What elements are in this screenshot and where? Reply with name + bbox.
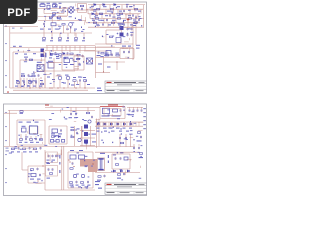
IC U4	[28, 126, 39, 134]
resistor R53	[109, 36, 112, 38]
wire	[4, 112, 17, 114]
wire	[10, 32, 92, 34]
wire	[135, 15, 137, 45]
transistor Q1	[58, 76, 62, 88]
resistor R4	[134, 8, 137, 10]
node	[103, 61, 118, 72]
capacitor C29	[137, 107, 139, 112]
wire	[90, 14, 138, 19]
resistor R45	[70, 168, 73, 170]
IC U10	[79, 155, 85, 159]
svg-text:PDF: PDF	[7, 7, 30, 19]
wire	[132, 25, 134, 60]
net label	[70, 150, 83, 151]
resistor R55	[116, 53, 120, 56]
net labels cluster	[28, 170, 45, 183]
capacitor C64	[67, 52, 69, 55]
net label	[40, 29, 77, 30]
wire	[82, 126, 91, 146]
wire	[86, 22, 140, 24]
net label	[42, 40, 85, 41]
wire	[95, 46, 97, 78]
net label	[70, 185, 91, 186]
node	[127, 18, 130, 21]
node	[86, 60, 93, 61]
wire	[84, 50, 108, 52]
node	[40, 77, 41, 78]
resistor R12	[133, 22, 136, 24]
filter box FB1	[46, 152, 58, 163]
diode D7	[97, 122, 99, 126]
net label	[71, 186, 89, 187]
wire	[95, 151, 140, 153]
resistor R46	[69, 182, 72, 184]
wire	[78, 4, 87, 13]
net label	[15, 53, 36, 54]
resistor R36	[39, 134, 42, 140]
net label	[71, 127, 80, 130]
capacitor C40	[40, 147, 42, 150]
wire	[95, 146, 135, 148]
wire	[127, 21, 129, 28]
resistor R14	[57, 16, 61, 19]
filter box FB2	[46, 166, 58, 177]
optocoupler U15	[41, 54, 45, 58]
net labels cluster	[98, 121, 143, 146]
capacitor C11	[67, 33, 69, 40]
wire	[95, 121, 143, 123]
wire	[96, 72, 111, 74]
wire	[100, 106, 125, 108]
capacitor C31	[119, 136, 121, 139]
net label	[97, 88, 102, 92]
net label	[122, 46, 131, 47]
net label	[102, 115, 121, 116]
resistor R22	[32, 73, 36, 76]
resistor R13	[49, 16, 53, 19]
net label	[118, 23, 124, 24]
resistor R9	[128, 18, 131, 20]
wire	[44, 52, 46, 88]
resistor R18	[74, 33, 77, 39]
capacitor C7	[102, 23, 104, 26]
capacitor C53	[104, 174, 106, 177]
net label	[49, 57, 81, 59]
resistor R32	[120, 142, 123, 144]
capacitor C6	[138, 19, 140, 22]
resistor R20	[24, 57, 33, 61]
capacitor C34	[25, 134, 27, 141]
node	[7, 91, 9, 94]
wire	[46, 45, 95, 47]
IC U3	[64, 57, 70, 63]
wire	[22, 152, 28, 170]
capacitor C32	[125, 136, 127, 139]
resistor R48	[115, 164, 118, 166]
wire	[13, 52, 45, 88]
capacitor C35	[35, 136, 37, 141]
capacitor C18	[35, 81, 37, 84]
optocoupler U12	[84, 132, 88, 136]
resistor R49	[139, 153, 142, 155]
net labels cluster	[111, 151, 142, 180]
node	[37, 165, 43, 181]
net label	[92, 20, 126, 21]
diode D17	[50, 53, 52, 55]
net labels cluster	[54, 129, 90, 149]
net label	[97, 180, 101, 181]
net label	[97, 131, 130, 132]
capacitor CX2	[59, 3, 62, 9]
capacitor C9	[43, 23, 45, 26]
wire	[97, 46, 116, 48]
wire	[17, 120, 45, 145]
wire	[75, 10, 88, 14]
title block	[105, 183, 147, 194]
capacitor C1	[126, 5, 128, 8]
wire	[80, 131, 95, 146]
wire	[28, 150, 45, 190]
net labels cluster	[107, 105, 134, 119]
diode D13	[58, 136, 60, 138]
resistor R54	[105, 53, 109, 56]
capacitor C44	[52, 154, 54, 157]
resistor R37	[51, 136, 54, 138]
net label	[11, 151, 38, 152]
resistor R59	[76, 58, 79, 60]
resistor R11	[111, 22, 114, 24]
capacitor C27	[129, 107, 131, 112]
net label	[47, 160, 56, 161]
capacitor C28	[133, 107, 135, 112]
diode D8	[104, 122, 106, 126]
wire	[8, 109, 95, 111]
net labels cluster	[51, 4, 80, 14]
capacitor C55	[81, 8, 83, 11]
wire	[75, 126, 82, 146]
net labels cluster	[46, 73, 87, 85]
capacitor C46	[72, 162, 74, 165]
IC U6	[52, 129, 58, 133]
capacitor C19	[73, 58, 75, 61]
wire	[127, 106, 143, 108]
net label	[136, 45, 140, 49]
wire	[95, 171, 140, 173]
capacitor C16	[38, 74, 40, 77]
inductor L1	[53, 3, 58, 7]
transformer T4	[120, 26, 124, 37]
PDF badge	[0, 0, 38, 24]
capacitor C10	[51, 33, 53, 40]
transistor Q5	[73, 174, 76, 177]
net labels cluster	[44, 15, 84, 30]
resistor R47	[80, 182, 83, 184]
transistor Q6	[81, 174, 84, 177]
capacitor C36	[60, 129, 62, 132]
optocoupler U2	[48, 61, 54, 68]
resistor R19	[134, 22, 137, 24]
wire	[21, 78, 45, 88]
transistor Q2	[66, 76, 70, 88]
sheet zone marks	[5, 112, 7, 183]
node	[29, 87, 52, 88]
capacitor C63	[55, 52, 57, 55]
resistor R10	[93, 22, 96, 24]
diode D2	[103, 4, 105, 6]
resistor R29	[20, 111, 24, 114]
diode D4	[92, 13, 94, 15]
capacitor C13	[135, 16, 137, 19]
resistor R51	[117, 174, 120, 176]
wire	[100, 107, 125, 119]
resistor R44	[49, 173, 52, 175]
inductor L4	[56, 140, 59, 143]
transformer T3	[98, 158, 105, 171]
resistor R56	[58, 54, 61, 56]
wire	[100, 26, 135, 28]
capacitor C57	[131, 27, 133, 30]
capacitor C17	[23, 81, 25, 84]
capacitor C22	[123, 50, 125, 53]
net label	[133, 20, 136, 27]
net label	[117, 178, 121, 179]
diode D12	[130, 122, 132, 126]
resistor R33	[137, 132, 140, 134]
net labels cluster	[92, 6, 135, 26]
net label	[19, 142, 39, 143]
net labels cluster	[88, 4, 142, 28]
capacitor C52	[138, 144, 140, 150]
wire	[120, 134, 131, 147]
resistor R38	[71, 129, 74, 131]
diode D3	[114, 4, 116, 6]
wire	[97, 119, 100, 149]
net label	[95, 181, 102, 189]
wire	[9, 27, 11, 88]
resistor R23	[16, 82, 19, 84]
capacitor C26	[120, 109, 122, 112]
resistor R30	[86, 107, 89, 113]
wire	[88, 13, 140, 15]
net labels cluster	[21, 59, 46, 87]
resistor R40	[11, 148, 14, 150]
optocoupler U13	[84, 140, 88, 144]
capacitor C67	[52, 168, 54, 171]
wire	[44, 25, 71, 33]
resistor R41	[22, 148, 25, 150]
diode D11	[123, 122, 125, 126]
diode D15	[120, 170, 122, 172]
rectifier module D5	[106, 51, 111, 56]
bridge rectifier BD2	[87, 58, 93, 64]
wire	[88, 4, 145, 6]
capacitor C30	[141, 107, 143, 112]
net label	[6, 148, 10, 152]
net label	[30, 179, 41, 180]
resistor R31	[113, 109, 118, 112]
capacitor C5	[106, 19, 108, 22]
capacitor C45	[48, 168, 50, 171]
net label	[93, 11, 141, 12]
wire	[10, 87, 95, 89]
capacitor C4	[132, 14, 134, 17]
resistor R1	[52, 13, 56, 16]
wire	[45, 49, 95, 51]
capacitor C23	[70, 107, 72, 115]
wire	[38, 20, 86, 22]
node	[49, 87, 85, 88]
diode D18	[63, 53, 65, 55]
wire	[95, 125, 143, 127]
node	[68, 159, 93, 167]
net label	[95, 15, 131, 16]
net label	[15, 86, 42, 87]
polarity mark	[117, 33, 129, 35]
net labels cluster	[44, 5, 67, 12]
transistor Q4	[78, 138, 81, 141]
resistor R34	[19, 134, 22, 140]
resistor R52	[80, 5, 83, 7]
wire	[74, 56, 84, 70]
capacitor C58	[127, 33, 129, 36]
capacitor C59	[131, 33, 133, 36]
capacitor C48	[87, 180, 89, 183]
net label	[56, 54, 60, 58]
resistor R43	[30, 169, 33, 171]
net label	[12, 28, 23, 29]
connector J1	[143, 108, 146, 129]
wire	[45, 189, 95, 191]
capacitor C65	[82, 54, 84, 57]
wire	[13, 89, 88, 91]
resistor R27	[83, 80, 86, 88]
resistor R7	[95, 18, 98, 20]
wire	[62, 55, 78, 70]
wire	[68, 152, 93, 188]
capacitor C33	[140, 135, 142, 138]
wire	[98, 23, 132, 27]
resistor R42	[33, 148, 36, 150]
wire	[92, 5, 134, 10]
net label	[57, 75, 86, 78]
wire	[90, 17, 144, 19]
net labels cluster	[98, 122, 143, 140]
wire	[112, 154, 130, 169]
wire	[94, 18, 128, 22]
capacitor C49	[115, 157, 117, 160]
diode D16	[127, 170, 129, 172]
capacitor C42	[39, 173, 41, 176]
capacitor C2	[123, 9, 125, 12]
capacitor C66	[55, 154, 57, 157]
voltage regulator U5	[22, 128, 27, 132]
capacitor C37	[76, 131, 78, 134]
capacitor C47	[76, 180, 78, 183]
wire	[4, 26, 38, 28]
net labels cluster	[49, 106, 97, 123]
net label	[64, 64, 75, 65]
net label	[16, 80, 43, 81]
wire	[10, 46, 133, 48]
diode D1	[94, 4, 96, 6]
net label	[19, 122, 39, 123]
net label	[100, 153, 109, 163]
inductor L3	[51, 140, 54, 143]
relay K1	[103, 108, 110, 114]
net label	[137, 140, 142, 141]
capacitor C14	[25, 58, 27, 61]
resistor R58	[77, 54, 80, 56]
capacitor C68	[79, 62, 81, 65]
wire	[62, 146, 64, 190]
transistor Q3	[88, 120, 91, 123]
capacitor C51	[133, 144, 135, 150]
diode D10	[117, 122, 119, 126]
relay box	[104, 109, 121, 116]
net labels cluster	[9, 146, 37, 153]
component box	[116, 38, 121, 43]
optocoupler U14	[41, 49, 45, 53]
net labels cluster	[44, 25, 83, 36]
net label	[45, 53, 46, 58]
inductor L6	[124, 157, 128, 160]
wire	[9, 110, 11, 146]
net label	[13, 46, 22, 47]
net labels cluster	[18, 48, 45, 62]
resistor R2	[96, 8, 99, 10]
resistor R28	[101, 52, 104, 54]
IC U1	[37, 65, 44, 72]
wire	[18, 78, 42, 88]
net labels cluster	[66, 61, 84, 69]
IC U9	[70, 155, 76, 159]
resistor R3	[110, 8, 113, 10]
resistor R57	[70, 53, 73, 55]
wire	[96, 9, 141, 14]
resistor R25	[40, 83, 43, 85]
capacitor C50	[120, 157, 122, 160]
capacitor C20	[79, 79, 81, 88]
resistor R15	[62, 24, 65, 26]
inductor L2	[51, 23, 56, 26]
heatsink area	[80, 159, 97, 172]
wire	[49, 126, 67, 144]
resistor R8	[117, 18, 120, 20]
page 1 sheet	[4, 2, 147, 94]
title block	[105, 81, 147, 92]
resistor R50	[98, 176, 101, 178]
optocoupler U11	[84, 125, 88, 129]
bridge rectifier BD1	[67, 6, 74, 13]
wire	[95, 43, 133, 45]
wire	[58, 10, 67, 16]
wire	[38, 8, 68, 10]
net label	[96, 24, 133, 25]
capacitor C62	[111, 53, 113, 56]
capacitor CX1	[47, 3, 51, 9]
wire	[143, 5, 145, 28]
net labels cluster	[46, 150, 61, 164]
page 2 sheet	[4, 104, 147, 196]
net label	[97, 55, 111, 68]
wire	[45, 106, 100, 108]
capacitor C41	[37, 167, 39, 170]
net labels cluster	[47, 50, 62, 65]
net labels cluster	[51, 107, 100, 121]
capacitor C12	[83, 33, 85, 40]
net label	[22, 126, 26, 127]
resistor R24	[28, 82, 31, 84]
